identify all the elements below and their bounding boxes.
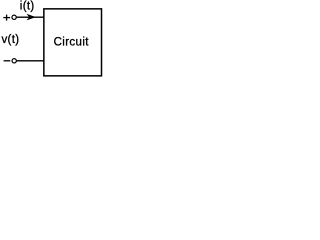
terminal B (bottom, open circle)	[12, 59, 16, 63]
svg-text:v(t): v(t)	[1, 34, 19, 46]
svg-text:i(t): i(t)	[20, 0, 35, 12]
plus sign (positive terminal polarity)	[3, 15, 10, 21]
circuit box U1	[44, 9, 102, 76]
terminal A (top, open circle)	[12, 15, 16, 19]
wire bottom (terminal B to box)	[17, 60, 45, 62]
minus sign (negative terminal polarity)	[4, 60, 11, 62]
wire top (terminal A to box)	[16, 16, 44, 18]
arrowhead i(t) current direction	[27, 14, 36, 21]
svg-text:Circuit: Circuit	[54, 36, 90, 48]
